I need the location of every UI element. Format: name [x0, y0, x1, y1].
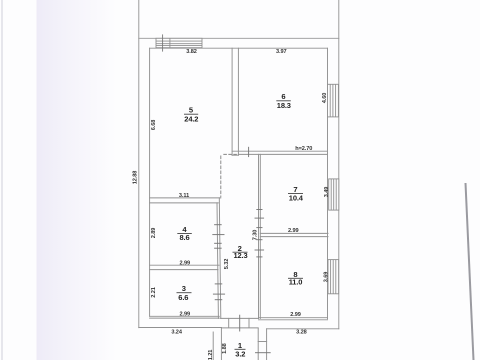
svg-text:3.24: 3.24 — [171, 329, 182, 335]
svg-text:12.88: 12.88 — [133, 171, 139, 185]
room 7 top wall — [238, 153, 327, 155]
svg-text:6.68: 6.68 — [151, 120, 157, 131]
room 1 label — [235, 341, 246, 359]
steps outer vertical — [266, 329, 268, 360]
wall between rooms 5 and 6 — [231, 48, 233, 155]
room 1 left wall — [220, 328, 222, 360]
svg-text:h=2.70: h=2.70 — [295, 146, 312, 152]
house inner right wall — [327, 48, 329, 319]
corridor right wall — [258, 154, 260, 318]
lavender scan band — [37, 0, 117, 360]
svg-text:1.21: 1.21 — [208, 350, 214, 360]
svg-text:3.82: 3.82 — [186, 49, 197, 55]
svg-text:2.99: 2.99 — [288, 228, 299, 234]
svg-text:7.30: 7.30 — [252, 230, 258, 241]
plot boundary left vertical — [138, 0, 140, 328]
house inner top wall — [150, 47, 328, 49]
door ticks room 3 right wall — [215, 283, 222, 285]
svg-text:3.11: 3.11 — [179, 193, 189, 199]
svg-text:3.2: 3.2 — [235, 350, 245, 359]
window tick — [162, 34, 164, 51]
wall between rooms 4 and 3 — [150, 264, 219, 266]
house outer bottom wall left section — [139, 327, 222, 329]
svg-text:3.69: 3.69 — [323, 272, 329, 283]
svg-text:24.2: 24.2 — [184, 114, 198, 123]
svg-text:3.28: 3.28 — [296, 330, 307, 336]
door ticks room 4 right wall — [215, 224, 222, 226]
svg-text:11.0: 11.0 — [289, 277, 303, 286]
exit door bottom line — [221, 327, 258, 329]
left page edge line — [1, 0, 3, 360]
room 3 label — [177, 284, 192, 302]
door tick room 6 bottom — [248, 147, 250, 156]
house outer bottom wall right section — [267, 328, 339, 330]
steps connector — [258, 341, 266, 343]
svg-text:8.6: 8.6 — [180, 233, 190, 242]
svg-text:2.99: 2.99 — [290, 312, 301, 318]
house outer top wall — [139, 37, 339, 39]
svg-text:2.99: 2.99 — [180, 312, 191, 318]
svg-text:3.97: 3.97 — [276, 49, 287, 55]
window W3 right (room 7) — [329, 179, 339, 210]
wall between rooms 5 and 4 — [150, 197, 221, 199]
room 4 label — [177, 225, 192, 242]
svg-text:2.99: 2.99 — [180, 261, 191, 267]
window W2 right (room 6) — [328, 84, 339, 117]
room 7 label — [288, 185, 304, 202]
svg-text:6.6: 6.6 — [178, 293, 188, 302]
svg-text:18.3: 18.3 — [277, 101, 291, 110]
corridor bottom wall inner — [221, 317, 259, 319]
room 6 bottom wall — [232, 150, 327, 152]
room 1 right wall — [257, 328, 259, 360]
svg-text:3: 3 — [182, 284, 186, 293]
svg-text:6: 6 — [281, 92, 285, 101]
room 2 label — [233, 244, 248, 260]
wall between rooms 7 and 8 — [260, 232, 328, 234]
room 3 bottom wall (inner, double) — [150, 315, 220, 317]
svg-text:4.60: 4.60 — [322, 93, 328, 104]
house inner left wall — [149, 48, 151, 316]
dashed opening room 5 to corridor — [224, 153, 239, 155]
svg-text:2.89: 2.89 — [151, 228, 157, 239]
plot boundary right vertical — [338, 0, 340, 329]
room 6 label — [276, 92, 291, 110]
corridor right wall ticks — [257, 209, 262, 211]
svg-text:12.3: 12.3 — [234, 251, 248, 260]
steps tick — [256, 352, 271, 354]
svg-text:5.32: 5.32 — [224, 259, 230, 270]
exit door tick — [239, 315, 241, 331]
right page edge line — [466, 183, 474, 360]
window W4 right (room 8) — [328, 260, 339, 294]
svg-text:1.88: 1.88 — [222, 343, 228, 354]
window W1 top (room 5) — [156, 34, 202, 51]
room 8 label — [288, 270, 303, 286]
svg-text:10.4: 10.4 — [289, 193, 304, 202]
dimension line 1.21 — [212, 332, 214, 360]
corridor left wall (rooms 4/3 right wall) — [217, 203, 218, 319]
exit door jambs — [228, 318, 230, 327]
room 5 label — [184, 106, 198, 124]
room 8 bottom wall (double) — [259, 317, 328, 319]
svg-text:3.49: 3.49 — [324, 187, 330, 198]
svg-text:2.21: 2.21 — [151, 287, 157, 298]
